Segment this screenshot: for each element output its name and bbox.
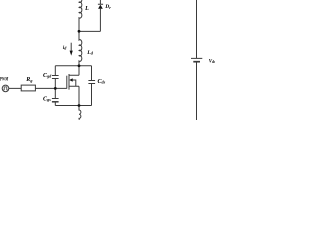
svg-text:Cgd: Cgd — [43, 73, 52, 79]
svg-text:L: L — [84, 6, 89, 12]
svg-text:Ld: Ld — [86, 50, 93, 56]
svg-text:PWM: PWM — [0, 77, 9, 82]
svg-text:Vdc: Vdc — [209, 59, 215, 64]
svg-text:Rg: Rg — [25, 77, 32, 83]
svg-text:Cds: Cds — [98, 79, 106, 85]
svg-text:Dr: Dr — [104, 4, 111, 10]
svg-text:Cgs: Cgs — [43, 96, 51, 102]
